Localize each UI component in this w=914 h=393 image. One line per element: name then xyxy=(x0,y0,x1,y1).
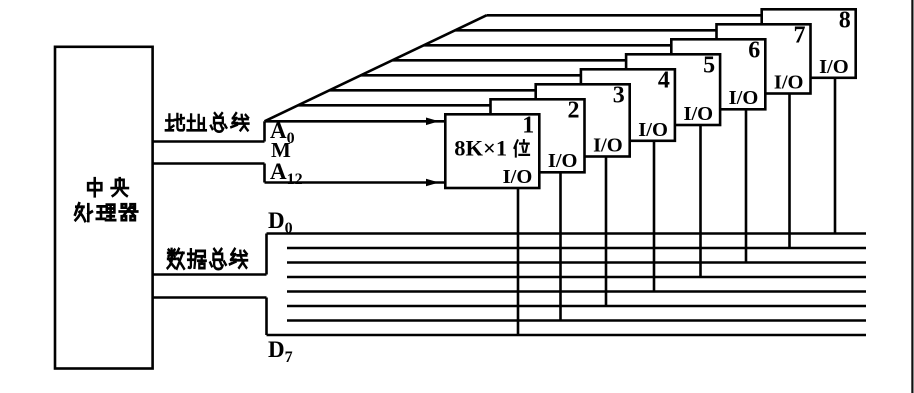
svg-text:I/O: I/O xyxy=(593,135,623,157)
address bus wire top xyxy=(153,140,265,143)
wire I/O of chip 6 down to data line D2 xyxy=(745,107,748,262)
wire I/O of chip 3 down to data line D5 xyxy=(605,155,608,307)
svg-text:I/O: I/O xyxy=(638,119,668,141)
CPU box 中央处理器 xyxy=(55,47,153,369)
svg-text:7: 7 xyxy=(794,23,806,49)
wire data line D7 xyxy=(267,334,867,337)
address bus step up to A0 xyxy=(263,121,266,141)
address bus step down to A12 xyxy=(263,164,266,183)
svg-text:I/O: I/O xyxy=(774,72,804,94)
wire data line D0 xyxy=(267,232,867,235)
wire data line D1 xyxy=(287,247,866,250)
wire data line D6 xyxy=(287,319,866,322)
address fan diagonal wire xyxy=(265,15,487,121)
wire I/O of chip 5 down to data line D3 xyxy=(699,123,702,277)
page border line (right edge) xyxy=(911,0,913,393)
svg-text:1: 1 xyxy=(522,113,534,139)
wire address line to chip 2 xyxy=(298,104,495,107)
svg-text:I/O: I/O xyxy=(503,166,533,188)
wire I/O of chip 8 down to data line D0 xyxy=(834,76,837,234)
wire I/O of chip 7 down to data line D1 xyxy=(788,92,791,249)
wire A12 into chip 1 xyxy=(265,181,446,184)
memory chip 5 (8K x 1 bit) xyxy=(626,53,720,125)
memory chip 1 (8K x 1 bit) xyxy=(445,113,539,188)
svg-text:I/O: I/O xyxy=(683,103,713,125)
CPU label 中央 xyxy=(88,178,128,196)
svg-text:5: 5 xyxy=(703,53,715,79)
wire address line to chip 3 xyxy=(329,89,539,92)
data bus wire bottom xyxy=(153,296,267,299)
wire A0 into chip 1 xyxy=(265,120,446,123)
svg-text:8: 8 xyxy=(839,8,851,34)
CPU label 处理器 xyxy=(75,203,137,221)
memory chip 2 (8K x 1 bit) xyxy=(491,98,585,173)
memory chip 4 (8K x 1 bit) xyxy=(581,68,675,141)
data bus wire top xyxy=(153,273,267,276)
wire I/O of chip 2 down to data line D6 xyxy=(559,170,562,320)
wire address line to chip 6 xyxy=(424,44,676,47)
svg-text:I/O: I/O xyxy=(548,150,578,172)
wire data line D2 xyxy=(287,261,866,264)
svg-text:6: 6 xyxy=(748,38,760,64)
svg-text:4: 4 xyxy=(658,68,670,94)
label 地址总线 xyxy=(166,113,249,131)
svg-text:I/O: I/O xyxy=(729,87,759,109)
wire data line D5 xyxy=(287,305,866,308)
wire address line to chip 7 xyxy=(455,29,720,32)
svg-text:8K×1: 8K×1 xyxy=(454,135,507,160)
address bus wire bottom xyxy=(153,162,265,165)
arrowhead A0 xyxy=(426,118,439,126)
arrowhead A12 xyxy=(426,179,439,187)
label 数据总线 xyxy=(168,249,247,269)
memory chip 7 (8K x 1 bit) xyxy=(717,23,811,94)
svg-text:2: 2 xyxy=(568,98,580,124)
wire data line D4 xyxy=(287,290,866,293)
data bus step down to D7 xyxy=(265,298,268,336)
wire I/O of chip 1 down to data line D7 xyxy=(517,186,520,335)
svg-text:I/O: I/O xyxy=(819,56,849,78)
memory chip 6 (8K x 1 bit) xyxy=(671,38,765,110)
wire address line to chip 8 xyxy=(487,14,766,17)
wire I/O of chip 4 down to data line D4 xyxy=(653,139,656,292)
svg-text:3: 3 xyxy=(613,83,625,109)
data bus step up to D0 xyxy=(265,234,268,275)
memory chip 3 (8K x 1 bit) xyxy=(536,83,630,157)
wire address line to chip 4 xyxy=(361,74,585,77)
wire data line D3 xyxy=(287,276,866,279)
wire address line to chip 5 xyxy=(392,59,630,62)
memory chip 8 (8K x 1 bit) xyxy=(762,8,856,78)
